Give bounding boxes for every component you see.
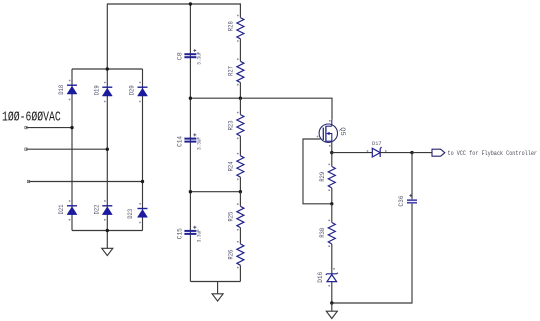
svg-text:R27: R27 (228, 66, 235, 76)
wire phase C input (27, 180, 142, 182)
wire bus2 (190, 191, 240, 193)
wire top bus (107, 3, 241, 5)
wire D17 to port node (380, 152, 412, 154)
wire R29 to gate node (331, 188, 333, 204)
capacitor C15 (176, 226, 202, 243)
wire source to D17 (332, 152, 373, 154)
wire gate loop (303, 139, 332, 204)
node bus2 right (239, 190, 242, 193)
wire bridge top bus (72, 68, 143, 70)
svg-text:C8: C8 (176, 52, 183, 60)
wire ladder bottom bus (190, 281, 240, 283)
wire bridge column 1 (71, 69, 73, 231)
svg-text:to VCC for Flyback Controller: to VCC for Flyback Controller (448, 150, 538, 157)
resistor R26 (228, 241, 244, 268)
wire R27 to bus1 (239, 83, 241, 99)
diode D19 (93, 82, 112, 103)
wire R30 to D16 (331, 244, 333, 274)
node phase C junction (141, 180, 144, 183)
wire R23-R24 (239, 136, 241, 156)
node source junction (330, 151, 333, 154)
svg-text:R24: R24 (228, 161, 235, 171)
node phase B junction (106, 148, 109, 151)
resistor R24 (228, 153, 244, 181)
port to VCC (432, 149, 537, 157)
wire C36 down and left (332, 204, 412, 303)
svg-text:Q5: Q5 (339, 127, 346, 136)
resistor R28 (228, 15, 244, 42)
wire R25-R26 (239, 228, 241, 244)
node cap rail top (189, 2, 192, 5)
svg-text:D21: D21 (58, 204, 65, 214)
svg-text:1ØØ-6ØØVAC: 1ØØ-6ØØVAC (2, 109, 61, 125)
wire R26 to bottom bus (239, 265, 241, 281)
diode D16 (317, 268, 338, 287)
diode D20 (129, 82, 148, 103)
svg-text:R29: R29 (319, 171, 326, 181)
svg-text:3.3uF: 3.3uF (195, 137, 202, 150)
node phase A junction (70, 126, 73, 129)
wire D16 to bottom node (331, 282, 333, 303)
svg-text:D22: D22 (93, 204, 100, 214)
diode D17 (367, 140, 387, 157)
wire resistor rail top (239, 4, 241, 18)
ground right (326, 303, 337, 319)
ground bridge (102, 231, 113, 256)
svg-text:3.3uF: 3.3uF (195, 229, 202, 242)
wire Q5 source down (331, 142, 333, 153)
wire bus1 to R23 (239, 98, 241, 114)
svg-text:R23: R23 (228, 120, 235, 130)
resistor R25 (228, 203, 244, 230)
svg-text:D20: D20 (129, 85, 136, 95)
ground ladder (212, 282, 223, 302)
node bus2 left (189, 190, 192, 193)
node bus1 right (239, 97, 242, 100)
node bottom right junction (330, 301, 333, 304)
svg-text:R25: R25 (228, 211, 235, 221)
wire port node to C36 (411, 153, 413, 200)
diode D18 (58, 80, 77, 101)
node bus1 left (189, 97, 192, 100)
node port junction (410, 151, 413, 154)
node gate junction (330, 202, 333, 205)
svg-text:D23: D23 (127, 208, 134, 218)
transistor Q5 (317, 120, 346, 147)
svg-text:R26: R26 (228, 249, 235, 259)
resistor R23 (228, 112, 244, 140)
diode D22 (93, 200, 112, 221)
svg-text:D18: D18 (58, 84, 65, 94)
wire phase A input (25, 126, 72, 128)
wire bus1 (190, 98, 332, 120)
wire R24 to bus2 (239, 177, 241, 192)
resistor R27 (228, 58, 244, 85)
node bridge ground junction (106, 229, 109, 232)
wire to port (412, 152, 432, 154)
svg-text:R28: R28 (228, 21, 235, 31)
resistor R30 (319, 220, 336, 248)
capacitor C36 (398, 194, 417, 207)
svg-text:R30: R30 (319, 227, 326, 237)
capacitor C14 (176, 133, 202, 150)
svg-text:D16: D16 (317, 271, 324, 282)
resistor R29 (319, 164, 336, 192)
wire gate node to R30 (331, 204, 333, 223)
svg-text:D17: D17 (372, 140, 382, 147)
diode D23 (127, 203, 148, 224)
wire capacitor rail (189, 4, 191, 282)
capacitor C8 (176, 49, 202, 65)
wire source to R29 (331, 153, 333, 167)
svg-text:C36: C36 (398, 195, 405, 206)
wire top bus to bridge (106, 4, 108, 69)
wire phase B input (25, 148, 108, 150)
wire bus2 to R25 (239, 192, 241, 207)
svg-text:3.3uF: 3.3uF (195, 52, 202, 65)
wire bridge bottom bus (72, 230, 143, 232)
svg-text:C15: C15 (176, 228, 183, 239)
wire R28-R27 (239, 39, 241, 62)
wire bridge column 3 (142, 69, 144, 231)
wire bridge column 2 (106, 69, 108, 231)
svg-text:D19: D19 (93, 85, 100, 95)
svg-text:C14: C14 (176, 136, 183, 147)
diode D21 (58, 200, 77, 221)
node bridge top junction (106, 67, 109, 70)
